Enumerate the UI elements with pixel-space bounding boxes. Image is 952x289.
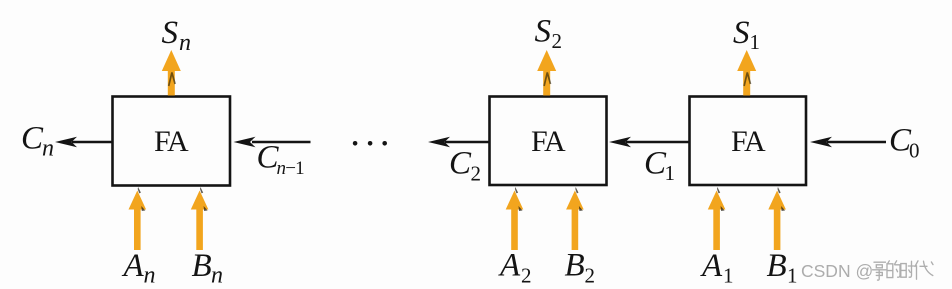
svg-text:0: 0	[909, 139, 920, 163]
full adder U2 (middle FA box, bit 2)	[490, 97, 607, 186]
svg-text:B: B	[767, 248, 787, 284]
label A1	[700, 248, 734, 288]
svg-text:FA: FA	[531, 125, 566, 158]
svg-text:1: 1	[787, 264, 798, 288]
svg-text:2: 2	[552, 29, 563, 53]
svg-text:1: 1	[723, 264, 734, 288]
svg-text:C: C	[449, 146, 472, 182]
label Sn	[162, 15, 192, 56]
label B2	[565, 248, 596, 288]
svg-text:1: 1	[750, 30, 761, 54]
label B1	[767, 248, 798, 288]
svg-text:CSDN @: CSDN @	[801, 261, 873, 281]
svg-text:C: C	[21, 121, 44, 157]
label Bn	[192, 248, 224, 289]
svg-text:2: 2	[521, 264, 532, 288]
label Cn	[21, 121, 54, 162]
svg-text:B: B	[192, 248, 212, 284]
svg-text:FA: FA	[154, 125, 189, 158]
svg-text:n: n	[179, 30, 191, 56]
label C1	[644, 146, 675, 186]
svg-text:2: 2	[471, 162, 482, 186]
svg-text:A: A	[498, 248, 521, 284]
svg-text:S: S	[535, 14, 552, 50]
wire carry-out C2 from U2 left side	[428, 137, 490, 148]
wire carry C1 from U1 into U2	[609, 137, 690, 148]
时	[901, 261, 915, 277]
label An	[122, 248, 156, 289]
ellipsis dots (omitted stages)	[353, 141, 387, 146]
svg-text:A: A	[700, 248, 723, 284]
svg-text:n−1: n−1	[277, 158, 305, 179]
full adder U3 (leftmost FA box, bit n)	[113, 97, 231, 186]
arrow input A1 (orange, up into U1 bottom)	[708, 187, 726, 250]
svg-text:B: B	[565, 248, 585, 284]
wire carry-in Cn-1 into U3 right side	[234, 137, 311, 148]
arrow input Bn (orange, up into U3 bottom)	[191, 187, 209, 250]
svg-text:n: n	[42, 136, 54, 162]
watermark CSDN @哥的时代	[801, 261, 933, 281]
arrow input B1 (orange, up into U1 bottom)	[768, 187, 786, 250]
arrow sum output Sn (orange, up out of U3)	[162, 50, 181, 96]
label S2	[535, 14, 563, 54]
arrow input A2 (orange, up into U2 bottom)	[506, 187, 524, 250]
svg-text:S: S	[733, 15, 750, 51]
svg-text:n: n	[211, 263, 223, 289]
full adder U1 (rightmost FA box, bit 1)	[690, 97, 807, 186]
svg-text:n: n	[144, 263, 156, 289]
wire carry-out Cn from U3 left side	[55, 137, 113, 148]
label Cn-1	[257, 140, 305, 180]
svg-text:2: 2	[585, 264, 596, 288]
label S1	[733, 15, 760, 54]
arrow input An (orange, up into U3 bottom)	[129, 187, 147, 250]
label A2	[498, 248, 532, 288]
svg-text:A: A	[122, 248, 145, 284]
代	[915, 261, 933, 279]
哥	[873, 262, 887, 280]
wire carry-in C0 into U1 right side	[810, 137, 886, 148]
svg-text:FA: FA	[731, 125, 766, 158]
svg-text:1: 1	[665, 161, 676, 185]
的	[887, 261, 900, 278]
arrow sum output S2 (orange, up out of U2)	[537, 50, 556, 96]
arrow input B2 (orange, up into U2 bottom)	[566, 187, 584, 250]
arrow sum output S1 (orange, up out of U1)	[737, 50, 756, 96]
label C0	[889, 123, 920, 163]
label C2	[449, 146, 481, 186]
svg-text:S: S	[162, 15, 179, 51]
